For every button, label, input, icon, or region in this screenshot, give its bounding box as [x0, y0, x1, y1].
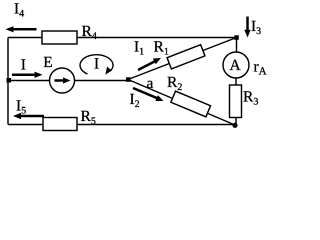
svg-text:E: E	[43, 54, 52, 71]
svg-text:A: A	[230, 57, 242, 74]
svg-text:I: I	[21, 57, 26, 74]
svg-text:I: I	[94, 56, 99, 73]
svg-text:a: a	[147, 75, 154, 92]
